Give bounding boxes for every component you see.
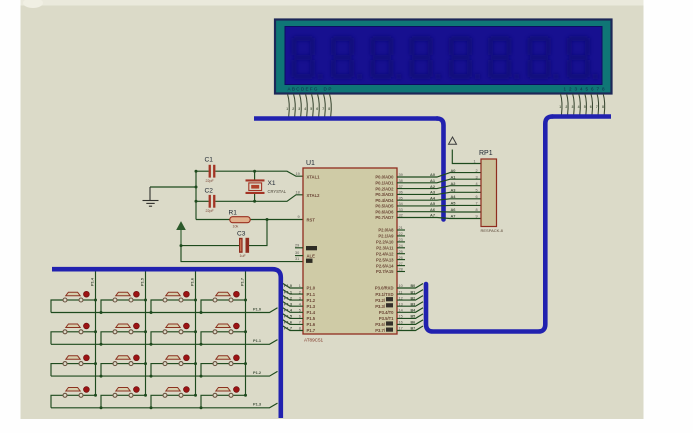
push button SW10 (row 3, col 2): [101, 355, 147, 376]
push button SW9 (row 3, col 1): [51, 355, 97, 376]
svg-text:1: 1: [559, 105, 561, 109]
node: keypad row 2 junction col 2: [100, 343, 103, 346]
svg-text:C3: C3: [237, 230, 246, 237]
svg-text:34: 34: [399, 202, 403, 206]
U1 pin numbers 39-32: [399, 173, 403, 218]
svg-text:X1: X1: [268, 180, 276, 187]
wires: P1.0-P1.7 to keypad bus: [283, 284, 303, 331]
svg-text:7: 7: [476, 202, 478, 206]
svg-text:P1.0: P1.0: [307, 286, 316, 291]
svg-text:RST: RST: [307, 218, 316, 223]
svg-text:B2: B2: [411, 296, 416, 300]
svg-text:P0.0/AD0: P0.0/AD0: [375, 175, 394, 180]
svg-text:ALE: ALE: [307, 253, 316, 258]
U1 pin name ALE: [307, 253, 316, 258]
svg-text:B5: B5: [411, 315, 416, 319]
svg-text:P1.6: P1.6: [307, 322, 316, 327]
node: VCC / C3 tee: [180, 244, 183, 247]
node: crystal top tee: [253, 170, 256, 173]
svg-text:3: 3: [572, 105, 574, 109]
U1 value label AT89C51: [304, 338, 324, 343]
display digit-select pins 1-8 with pin numbers: [561, 94, 605, 115]
svg-text:10: 10: [399, 284, 403, 288]
svg-text:31: 31: [295, 257, 299, 261]
wire: crystal X1 top lead: [254, 171, 256, 179]
svg-text:P3.0/RXD: P3.0/RXD: [375, 286, 394, 291]
svg-text:P3.6/: P3.6/: [375, 322, 386, 327]
svg-text:P2.3/A11: P2.3/A11: [376, 246, 394, 251]
svg-text:A5: A5: [451, 201, 457, 206]
U1 pin numbers 29 30 31: [295, 243, 299, 261]
svg-text:22pF: 22pF: [206, 209, 215, 213]
U1 right pin names P2.0/A8-P2.7/A15: [376, 228, 394, 275]
svg-text:P1.3: P1.3: [253, 402, 262, 407]
U1 left pin names XTAL1 XTAL2 RST: [307, 174, 321, 222]
svg-text:P1.5: P1.5: [307, 316, 316, 321]
U1 pin 19 XTAL1 number: [296, 172, 300, 176]
svg-text:8: 8: [476, 208, 478, 212]
svg-text:A2: A2: [430, 184, 436, 189]
svg-text:P0.7/AD7: P0.7/AD7: [375, 215, 394, 220]
svg-text:C2: C2: [205, 187, 214, 194]
wire: crystal X1 bottom lead: [254, 194, 256, 201]
svg-text:P0.5/AD5: P0.5/AD5: [375, 204, 394, 209]
svg-text:P1.0: P1.0: [284, 283, 292, 288]
push button SW13 (row 4, col 1): [51, 387, 97, 408]
node: keypad row 1 junction col 3: [150, 311, 153, 314]
svg-text:4: 4: [299, 302, 301, 306]
svg-text:8: 8: [328, 107, 330, 111]
wire: RP1 pin 1 common: [452, 150, 481, 164]
net labels A0-A7 right of bus: [451, 168, 457, 219]
svg-text:A2: A2: [451, 181, 457, 186]
wire: GND tie vertical C1/C2/R1: [195, 171, 197, 219]
svg-text:6: 6: [476, 195, 478, 199]
svg-text:P1.6: P1.6: [284, 320, 293, 325]
push button SW15 (row 4, col 3): [151, 387, 197, 408]
node: keypad row 1 junction col 2: [100, 311, 103, 314]
svg-text:2: 2: [565, 105, 567, 109]
keypad column net labels P1.4-P1.7 (rotated): [90, 277, 245, 286]
svg-text:A7: A7: [451, 214, 456, 219]
svg-text:P1.7: P1.7: [307, 328, 316, 333]
svg-text:33: 33: [399, 208, 403, 212]
RP1 pin 1 number: [474, 160, 476, 164]
display DS1 7-segment 8-digit module frame: [275, 20, 612, 94]
svg-text:RP1: RP1: [479, 150, 493, 157]
svg-text:12: 12: [399, 296, 403, 300]
svg-text:CRYSTAL: CRYSTAL: [268, 189, 287, 194]
node: keypad row 3 junction col 4: [200, 375, 203, 378]
node: gnd tie at C2 row: [195, 200, 198, 203]
svg-text:P1.1: P1.1: [253, 338, 262, 343]
bus: digit bus from display right pins down to P3 port: [552, 114, 612, 119]
svg-text:P0.1/AD1: P0.1/AD1: [375, 181, 394, 186]
node: keypad row 4 junction col 4: [200, 406, 203, 409]
svg-text:27: 27: [399, 262, 403, 266]
svg-text:P3.1/TXD: P3.1/TXD: [375, 292, 393, 297]
svg-text:AT89C51: AT89C51: [304, 338, 324, 343]
svg-text:26: 26: [399, 256, 403, 260]
net labels B0-B7 at digit bus: [411, 284, 417, 331]
svg-text:4: 4: [578, 105, 580, 109]
svg-text:P2.5/A13: P2.5/A13: [376, 257, 394, 262]
svg-text:A3: A3: [451, 188, 457, 193]
U1 left pin names P1.0-P1.7: [307, 286, 316, 334]
svg-text:7: 7: [322, 107, 324, 111]
wire: R1 left lead to GND tie: [196, 219, 230, 221]
bus: segment bus from display left pins to RP1 area: [254, 116, 438, 121]
svg-text:P1.4: P1.4: [90, 277, 95, 286]
svg-text:XTAL2: XTAL2: [307, 193, 321, 198]
node: keypad row 2 junction col 4: [200, 343, 203, 346]
svg-text:30: 30: [295, 251, 299, 255]
svg-text:17: 17: [399, 327, 403, 331]
svg-text:1: 1: [286, 107, 288, 111]
display DS1 screen: [285, 27, 602, 85]
bus: keypad bus to port P1: [52, 269, 281, 418]
svg-text:A0: A0: [451, 168, 456, 173]
svg-text:2: 2: [299, 290, 301, 294]
net labels P1.0-P1.7 at port P1: [284, 283, 293, 331]
push button SW8 (row 2, col 4): [201, 323, 247, 344]
push button SW4 (row 1, col 4): [201, 291, 247, 312]
push button SW7 (row 2, col 3): [151, 323, 197, 344]
node: gnd tie at C1 row: [195, 170, 198, 173]
wire: ground to C1/C2 tie: [150, 186, 196, 188]
U1 pin name PSEN (inverted): [306, 246, 317, 250]
svg-text:P1.5: P1.5: [284, 314, 293, 319]
wire: C2 to XTAL2 pin 18: [215, 195, 303, 202]
svg-text:8: 8: [602, 105, 604, 109]
svg-text:P1.5: P1.5: [140, 277, 145, 286]
svg-text:P2.6/A14: P2.6/A14: [376, 263, 394, 268]
ground: [143, 187, 159, 206]
push button SW11 (row 3, col 3): [151, 355, 197, 376]
svg-text:5: 5: [584, 105, 586, 109]
svg-text:2: 2: [476, 169, 478, 173]
svg-text:6: 6: [299, 315, 301, 319]
wires: P0.0-P0.7 through segment bus to RP1: [397, 173, 481, 219]
svg-text:B1: B1: [411, 290, 416, 294]
svg-text:11: 11: [399, 290, 403, 294]
svg-text:A1: A1: [451, 174, 457, 179]
node: crystal bottom tee: [253, 200, 256, 203]
svg-text:R1: R1: [229, 210, 238, 217]
RP1 value label RESPACK-8: [481, 228, 504, 233]
display segment pins A-DP with pin numbers: [288, 94, 332, 117]
svg-text:1uF: 1uF: [240, 254, 247, 258]
svg-text:RESPACK-8: RESPACK-8: [481, 228, 504, 233]
svg-text:24: 24: [399, 244, 403, 248]
svg-text:P1.6: P1.6: [190, 277, 195, 286]
svg-text:A0: A0: [430, 172, 435, 177]
node: gnd wire tee: [195, 186, 198, 189]
svg-text:2: 2: [292, 107, 294, 111]
keypad row wires P1.0-P1.3 to keypad bus: [51, 308, 278, 408]
svg-text:39: 39: [399, 173, 403, 177]
svg-text:8: 8: [299, 327, 301, 331]
svg-text:25: 25: [399, 250, 403, 254]
wire: RST node down to C3 right plate: [249, 220, 267, 246]
svg-text:B3: B3: [411, 302, 416, 306]
svg-text:13: 13: [399, 302, 403, 306]
svg-text:6: 6: [590, 105, 592, 109]
node: keypad row 2 junction col 3: [150, 343, 153, 346]
svg-text:ABCDEFG: ABCDEFG: [288, 87, 318, 92]
U1 pin 18 XTAL2 number: [296, 190, 300, 194]
svg-text:22: 22: [399, 232, 403, 236]
push button SW12 (row 3, col 4): [201, 355, 247, 376]
svg-text:P0.2/AD2: P0.2/AD2: [375, 186, 394, 191]
capacitor C1: [209, 165, 216, 178]
svg-text:3: 3: [299, 296, 301, 300]
U1 pin 9 RST number: [298, 215, 300, 219]
U1 P3 inverted name boxes INT0 INT1 WR RD: [386, 297, 393, 332]
node: keypad row 3 junction col 2: [100, 375, 103, 378]
svg-text:B6: B6: [411, 321, 416, 325]
wire: R1 right to RST pin 9: [250, 219, 303, 221]
svg-text:P2.2/A10: P2.2/A10: [376, 240, 394, 245]
svg-text:P0.3/AD3: P0.3/AD3: [375, 192, 394, 197]
svg-text:10k: 10k: [233, 224, 239, 228]
capacitor C2: [209, 195, 216, 208]
svg-text:29: 29: [295, 243, 299, 247]
svg-text:3: 3: [476, 175, 478, 179]
node: keypad row 4 junction col 2: [100, 406, 103, 409]
node: keypad row 1 junction col 4: [200, 311, 203, 314]
svg-text:P1.3: P1.3: [307, 304, 316, 309]
svg-text:P1.2: P1.2: [307, 298, 316, 303]
wire: C2 left lead: [196, 200, 209, 202]
node: keypad row 3 junction col 3: [150, 375, 153, 378]
svg-text:35: 35: [399, 196, 403, 200]
microcontroller U1 AT89C51 body: [303, 168, 397, 334]
svg-text:P1.1: P1.1: [284, 289, 293, 294]
svg-text:A4: A4: [451, 194, 457, 199]
U1 pin stubs PSEN ALE: [295, 248, 303, 256]
svg-text:18: 18: [296, 190, 300, 194]
svg-text:3: 3: [298, 107, 300, 111]
svg-text:B0: B0: [411, 284, 416, 288]
svg-text:1: 1: [474, 160, 476, 164]
node: RST tee: [266, 218, 269, 221]
node: keypad row 4 junction col 3: [150, 406, 153, 409]
svg-text:P2.1/A9: P2.1/A9: [378, 234, 394, 239]
RP1 reference label: [479, 150, 493, 157]
svg-text:P0.4/AD4: P0.4/AD4: [375, 198, 394, 203]
svg-text:P3.5/T1: P3.5/T1: [379, 316, 394, 321]
svg-text:P3.3/: P3.3/: [375, 304, 386, 309]
resistor R1: [230, 217, 250, 223]
svg-text:A1: A1: [430, 178, 436, 183]
svg-text:22pF: 22pF: [206, 179, 215, 183]
power terminal VCC: [177, 222, 185, 245]
svg-text:9: 9: [476, 215, 478, 219]
svg-text:P2.4/A12: P2.4/A12: [376, 251, 394, 256]
svg-text:7: 7: [299, 321, 301, 325]
svg-text:A6: A6: [430, 207, 436, 212]
wire: C1 left lead: [196, 170, 209, 172]
svg-text:38: 38: [399, 179, 403, 183]
wire: C1 to XTAL1 pin 19: [215, 171, 303, 176]
push button SW14 (row 4, col 2): [101, 387, 147, 408]
svg-text:P3.7/: P3.7/: [375, 328, 386, 333]
bus tap terminal (triangle) above RP1: [449, 137, 457, 144]
U1 pin name EA (inverted): [306, 259, 313, 263]
svg-text:4: 4: [476, 182, 478, 186]
svg-text:36: 36: [399, 191, 403, 195]
push button SW3 (row 1, col 3): [151, 291, 197, 312]
svg-text:6: 6: [316, 107, 318, 111]
svg-text:9: 9: [298, 215, 300, 219]
svg-text:5: 5: [299, 309, 301, 313]
svg-text:28: 28: [399, 268, 403, 272]
svg-text:1: 1: [299, 284, 301, 288]
svg-text:P1.0: P1.0: [253, 306, 261, 311]
svg-text:21: 21: [399, 226, 403, 230]
svg-text:14: 14: [399, 309, 403, 313]
svg-text:DP: DP: [324, 87, 332, 92]
U1 right pin names P0.0/AD0-P0.7/AD7: [375, 175, 394, 221]
resistor pack RP1 body: [481, 159, 497, 227]
display segment pin name label ABCDEFG DP: [288, 87, 332, 92]
U1 pin numbers 1-8: [299, 284, 301, 331]
wires: P3.0-P3.7 to digit bus: [397, 284, 423, 331]
svg-text:B7: B7: [411, 327, 416, 331]
svg-text:P2.0/A8: P2.0/A8: [378, 228, 394, 233]
svg-text:32: 32: [399, 214, 403, 218]
svg-text:A4: A4: [430, 195, 436, 200]
svg-text:A6: A6: [451, 207, 457, 212]
push button SW2 (row 1, col 2): [101, 291, 147, 312]
display digit pin name label 12345678: [564, 87, 605, 92]
U1 pin numbers 10-17: [399, 284, 403, 331]
svg-text:4: 4: [304, 107, 306, 111]
push button SW16 (row 4, col 4): [201, 387, 247, 408]
push button SW6 (row 2, col 2): [101, 323, 147, 344]
keypad row net labels P1.0-P1.3: [253, 306, 262, 406]
svg-text:XTAL1: XTAL1: [307, 174, 321, 179]
svg-text:P3.4/T0: P3.4/T0: [379, 310, 394, 315]
wire: VCC to EA pin 31: [181, 246, 303, 262]
svg-text:7: 7: [596, 105, 598, 109]
svg-text:A7: A7: [430, 213, 435, 218]
svg-text:P1.4: P1.4: [307, 310, 316, 315]
keypad column wires P1.4-P1.7: [96, 272, 246, 396]
svg-text:P1.3: P1.3: [284, 301, 293, 306]
svg-text:15: 15: [399, 315, 403, 319]
U1 reference label: [306, 160, 315, 167]
svg-text:5: 5: [476, 189, 478, 193]
net labels A0-A7 left of bus: [430, 172, 436, 218]
svg-text:P2.7/A15: P2.7/A15: [376, 269, 394, 274]
svg-text:P1.2: P1.2: [284, 295, 293, 300]
svg-text:23: 23: [399, 238, 403, 242]
capacitor C3: [239, 238, 249, 253]
svg-text:P1.2: P1.2: [253, 370, 262, 375]
svg-text:A3: A3: [430, 190, 436, 195]
svg-text:P1.1: P1.1: [307, 292, 316, 297]
svg-text:U1: U1: [306, 160, 315, 167]
svg-text:19: 19: [296, 172, 300, 176]
svg-text:5: 5: [310, 107, 312, 111]
RP1 pin numbers 2-9: [476, 169, 478, 219]
svg-text:P1.7: P1.7: [284, 326, 292, 331]
svg-text:P3.2/: P3.2/: [375, 298, 386, 303]
U1 right pin names P3.0-P3.7: [375, 286, 394, 334]
svg-text:C1: C1: [205, 157, 214, 164]
push button SW1 (row 1, col 1): [51, 291, 97, 312]
svg-text:37: 37: [399, 185, 403, 189]
svg-text:P1.7: P1.7: [240, 278, 245, 286]
svg-text:P0.6/AD6: P0.6/AD6: [375, 209, 394, 214]
U1 pin stubs P2.0-P2.7 with numbers 21-28: [397, 230, 405, 272]
svg-text:16: 16: [399, 321, 403, 325]
push button SW5 (row 2, col 1): [51, 323, 97, 344]
svg-text:A5: A5: [430, 201, 436, 206]
svg-text:P1.4: P1.4: [284, 308, 293, 313]
crystal X1: [246, 179, 265, 194]
wire: C3 left plate to VCC stem: [181, 245, 239, 247]
